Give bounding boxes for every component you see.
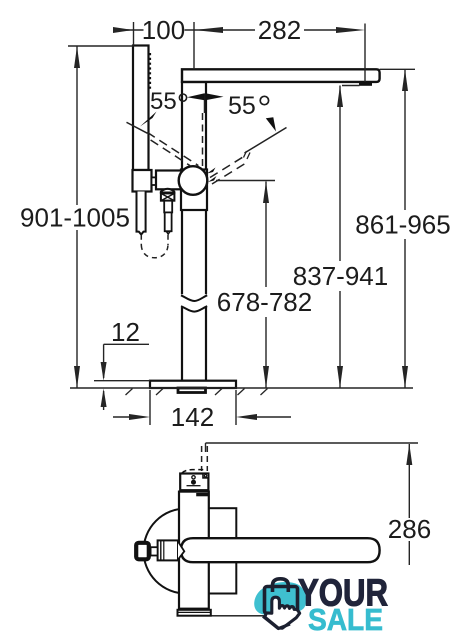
svg-text:286: 286 bbox=[388, 514, 431, 544]
svg-text:SALE: SALE bbox=[308, 602, 383, 637]
svg-text:678-782: 678-782 bbox=[217, 287, 312, 317]
svg-text:100: 100 bbox=[142, 15, 185, 45]
svg-text:55: 55 bbox=[228, 92, 256, 120]
svg-text:901-1005: 901-1005 bbox=[20, 203, 130, 233]
svg-text:142: 142 bbox=[171, 402, 214, 432]
svg-text:861-965: 861-965 bbox=[355, 210, 450, 240]
svg-text:55: 55 bbox=[150, 88, 177, 115]
svg-text:282: 282 bbox=[258, 15, 301, 45]
svg-text:12: 12 bbox=[111, 317, 140, 347]
